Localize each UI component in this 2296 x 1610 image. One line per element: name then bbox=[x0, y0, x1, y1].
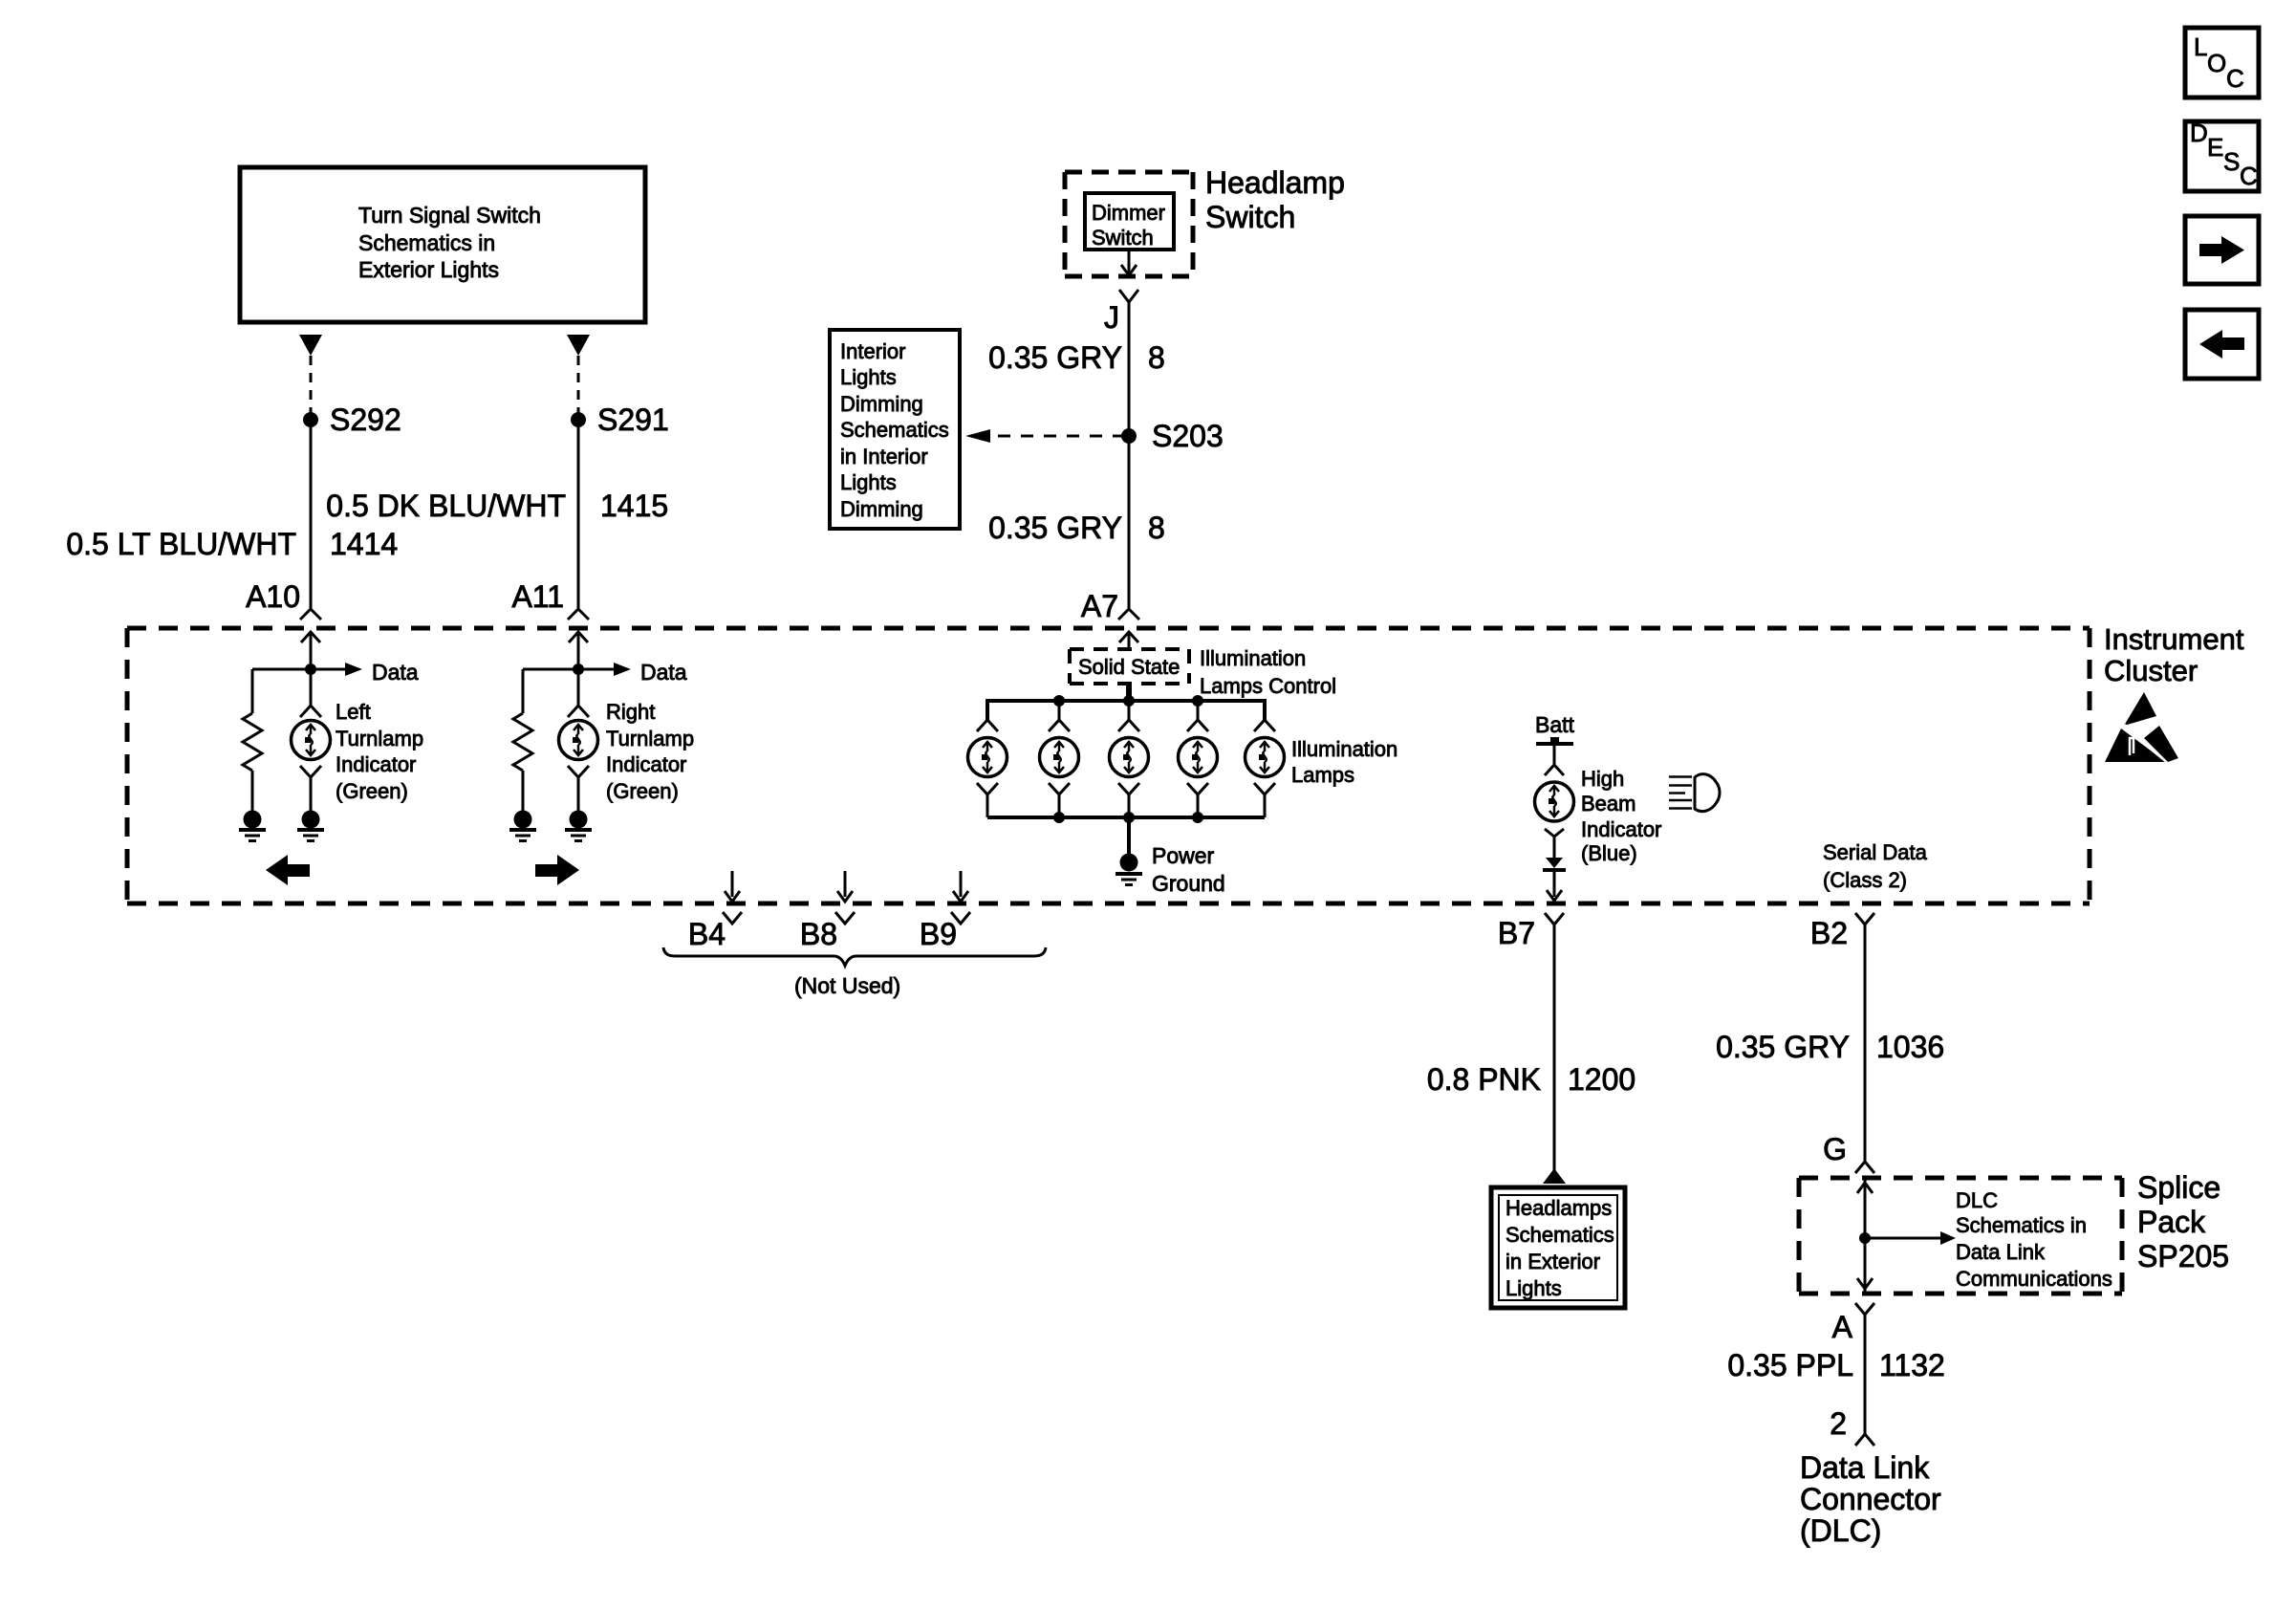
pin B9 arrow bbox=[920, 871, 970, 951]
resistor (left turnlamp) bbox=[243, 669, 262, 811]
svg-text:0.5 DK BLU/WHT: 0.5 DK BLU/WHT bbox=[326, 489, 566, 523]
entry arrow A11 into cluster bbox=[569, 632, 588, 669]
svg-text:Lights: Lights bbox=[840, 365, 897, 389]
svg-text:0.35 PPL: 0.35 PPL bbox=[1727, 1348, 1853, 1382]
off-page arrow into headlamps box bbox=[1543, 1168, 1566, 1184]
label 0.5 DK BLU/WHT 1415 bbox=[326, 489, 668, 523]
svg-text:(Class 2): (Class 2) bbox=[1823, 868, 1907, 892]
svg-text:0.35 GRY: 0.35 GRY bbox=[1716, 1030, 1850, 1064]
DESC icon box bbox=[2185, 119, 2259, 191]
pin B2 bbox=[1810, 913, 1874, 950]
svg-text:Illumination: Illumination bbox=[1291, 737, 1397, 761]
svg-text:8: 8 bbox=[1148, 340, 1165, 375]
dashed arrow to interior lights dimming box bbox=[965, 429, 1122, 443]
svg-text:Data: Data bbox=[640, 660, 687, 685]
ground (right lamp) bbox=[565, 811, 592, 841]
svg-text:Schematics in: Schematics in bbox=[1956, 1213, 2087, 1237]
svg-text:Communications: Communications bbox=[1956, 1267, 2112, 1291]
DLC schematics label bbox=[1956, 1188, 2112, 1291]
svg-text:0.5 LT BLU/WHT: 0.5 LT BLU/WHT bbox=[66, 527, 296, 561]
svg-text:Right: Right bbox=[606, 700, 655, 724]
wire 1200 (B7 down) bbox=[1553, 925, 1556, 1170]
svg-text:Headlamp: Headlamp bbox=[1205, 165, 1345, 200]
svg-text:(DLC): (DLC) bbox=[1800, 1513, 1881, 1548]
svg-text:Indicator: Indicator bbox=[606, 752, 686, 776]
splice S292 bbox=[303, 402, 401, 437]
svg-text:Turn Signal Switch: Turn Signal Switch bbox=[358, 203, 541, 228]
svg-text:C: C bbox=[2240, 162, 2258, 190]
illumination lamp 4 bbox=[1179, 720, 1218, 817]
svg-text:Lamps: Lamps bbox=[1291, 763, 1354, 787]
svg-text:2: 2 bbox=[1830, 1406, 1847, 1441]
svg-text:Serial Data: Serial Data bbox=[1823, 840, 1928, 864]
connector pin A bbox=[1832, 1303, 1874, 1344]
connector pin A10 bbox=[246, 579, 321, 620]
ground (left lamp) bbox=[297, 811, 324, 841]
svg-text:0.35 GRY: 0.35 GRY bbox=[988, 340, 1122, 375]
svg-text:in Exterior: in Exterior bbox=[1505, 1250, 1600, 1273]
reference box Interior Lights Dimming bbox=[830, 330, 960, 529]
LOC icon box bbox=[2185, 28, 2259, 98]
svg-text:0.8 PNK: 0.8 PNK bbox=[1427, 1062, 1541, 1097]
svg-text:E: E bbox=[2207, 133, 2223, 162]
svg-text:Lights: Lights bbox=[840, 470, 897, 494]
node: junction at left data branch bbox=[305, 664, 316, 675]
svg-text:Turnlamp: Turnlamp bbox=[336, 727, 423, 751]
diode bbox=[1543, 858, 1566, 870]
reference box Turn Signal Switch Schematics in Exterior Lights bbox=[240, 167, 645, 322]
illumination lamp 1 bbox=[968, 720, 1007, 817]
node: junction at right data branch bbox=[573, 664, 584, 675]
connector pin A11 bbox=[511, 579, 589, 620]
arrow to B7 bbox=[1547, 872, 1562, 901]
connector pin G bbox=[1823, 1132, 1874, 1173]
svg-text:Data: Data bbox=[372, 660, 419, 685]
svg-text:A10: A10 bbox=[246, 579, 300, 614]
dashed wire from box to S291 bbox=[577, 356, 580, 414]
svg-text:A7: A7 bbox=[1081, 589, 1118, 623]
illumination lamps label bbox=[1291, 737, 1397, 787]
svg-text:Splice: Splice bbox=[2137, 1170, 2220, 1205]
illumination lamp 3 bbox=[1110, 720, 1149, 817]
svg-text:Schematics: Schematics bbox=[840, 418, 949, 442]
svg-text:Left: Left bbox=[336, 700, 371, 724]
Instrument Cluster label bbox=[2104, 622, 2244, 687]
label 0.35 GRY 8 (lower) bbox=[988, 511, 1165, 545]
svg-text:A11: A11 bbox=[511, 579, 564, 614]
svg-text:(Green): (Green) bbox=[606, 779, 679, 803]
wire 1414 (S292 to A10) bbox=[310, 426, 313, 609]
ground (left resistor) bbox=[239, 811, 266, 841]
reference box Headlamps Schematics bbox=[1491, 1187, 1625, 1308]
lamp high beam indicator bbox=[1535, 767, 1662, 865]
resistor (right turnlamp) bbox=[513, 669, 532, 811]
entry arrow A7 into cluster bbox=[1119, 632, 1138, 649]
off-page arrow (right, to S291) bbox=[567, 335, 590, 356]
arrow from dimmer switch bbox=[1121, 250, 1137, 275]
illumination lamps bottom bus bbox=[987, 812, 1265, 823]
serial data label bbox=[1823, 840, 1928, 892]
connector pin J bbox=[1104, 290, 1138, 335]
svg-text:DLC: DLC bbox=[1956, 1188, 1998, 1212]
entry arrow A10 into cluster bbox=[301, 632, 320, 669]
svg-text:Beam: Beam bbox=[1581, 792, 1635, 816]
connector pin A7 bbox=[1081, 589, 1139, 623]
illumination lamp 5 bbox=[1245, 720, 1285, 817]
svg-text:Instrument: Instrument bbox=[2104, 622, 2244, 656]
wire data (right) bbox=[523, 660, 687, 685]
Instrument Cluster dashed border bbox=[127, 628, 2090, 903]
svg-text:O: O bbox=[2207, 49, 2226, 77]
svg-text:S203: S203 bbox=[1152, 419, 1224, 453]
pin 2 of DLC bbox=[1830, 1406, 1874, 1446]
wire data (left) bbox=[252, 660, 419, 685]
svg-text:Lamps Control: Lamps Control bbox=[1200, 674, 1336, 698]
svg-text:S: S bbox=[2223, 147, 2240, 176]
Splice Pack SP205 dashed box bbox=[1799, 1170, 2229, 1294]
svg-text:Switch: Switch bbox=[1092, 226, 1154, 250]
svg-text:Dimming: Dimming bbox=[840, 392, 923, 416]
Dimmer Switch box bbox=[1085, 193, 1174, 250]
svg-text:S291: S291 bbox=[597, 402, 669, 437]
ESD sensitive symbol bbox=[2105, 692, 2178, 764]
data link connector label bbox=[1800, 1450, 1941, 1548]
splice S203 bbox=[1121, 419, 1224, 453]
wire 8 (J to S203) bbox=[1128, 302, 1131, 429]
power ground bbox=[1116, 817, 1225, 896]
pin B7 bbox=[1498, 913, 1564, 950]
svg-text:Data Link: Data Link bbox=[1800, 1450, 1930, 1485]
svg-text:Turnlamp: Turnlamp bbox=[606, 727, 694, 751]
svg-text:1415: 1415 bbox=[600, 489, 668, 523]
svg-text:Batt: Batt bbox=[1535, 712, 1575, 737]
svg-text:Exterior Lights: Exterior Lights bbox=[358, 257, 499, 282]
right arrow icon box bbox=[2185, 216, 2259, 284]
high beam icon bbox=[1669, 774, 1720, 812]
svg-text:L: L bbox=[2194, 33, 2207, 61]
pin B4 arrow bbox=[688, 871, 742, 951]
dashed wire from box to S292 bbox=[310, 356, 313, 414]
svg-text:Schematics: Schematics bbox=[1505, 1223, 1614, 1247]
svg-text:S292: S292 bbox=[330, 402, 401, 437]
svg-text:Lights: Lights bbox=[1505, 1276, 1562, 1300]
left turn arrow icon bbox=[266, 855, 310, 885]
svg-text:Power: Power bbox=[1152, 843, 1215, 868]
svg-text:(Green): (Green) bbox=[336, 779, 408, 803]
svg-text:Connector: Connector bbox=[1800, 1482, 1941, 1516]
wire 8 (S203 to A7) bbox=[1128, 443, 1131, 609]
svg-text:(Blue): (Blue) bbox=[1581, 841, 1637, 865]
brace (not used pins) bbox=[663, 947, 1046, 998]
ground (right resistor) bbox=[509, 811, 536, 841]
svg-text:Interior: Interior bbox=[840, 339, 905, 363]
splice S291 bbox=[571, 402, 669, 437]
svg-text:Dimmer: Dimmer bbox=[1092, 201, 1165, 225]
svg-text:Cluster: Cluster bbox=[2104, 654, 2198, 687]
svg-text:High: High bbox=[1581, 767, 1624, 791]
svg-text:G: G bbox=[1823, 1132, 1847, 1166]
wire 1132 (A to DLC) bbox=[1864, 1315, 1867, 1434]
svg-text:Dimming: Dimming bbox=[840, 497, 923, 521]
svg-text:1036: 1036 bbox=[1876, 1030, 1944, 1064]
label 0.35 GRY 1036 bbox=[1716, 1030, 1944, 1064]
svg-text:Indicator: Indicator bbox=[336, 752, 416, 776]
svg-text:A: A bbox=[1832, 1310, 1853, 1344]
off-page arrow (left, to S292) bbox=[299, 335, 322, 356]
illumination lamps top bus bbox=[987, 695, 1265, 722]
label 0.8 PNK 1200 bbox=[1427, 1062, 1635, 1097]
Solid State control box bbox=[1070, 646, 1336, 698]
left arrow icon box bbox=[2185, 310, 2259, 379]
svg-text:D: D bbox=[2190, 119, 2208, 147]
svg-text:SP205: SP205 bbox=[2137, 1239, 2229, 1273]
svg-text:(Not Used): (Not Used) bbox=[794, 973, 900, 998]
right turn arrow icon bbox=[535, 855, 579, 885]
label 0.5 LT BLU/WHT 1414 bbox=[66, 527, 398, 561]
svg-text:Illumination: Illumination bbox=[1200, 646, 1306, 670]
svg-text:Solid State: Solid State bbox=[1078, 655, 1180, 679]
wire 1036 (B2 to G) bbox=[1864, 925, 1867, 1161]
svg-text:1200: 1200 bbox=[1568, 1062, 1635, 1097]
svg-text:Headlamps: Headlamps bbox=[1505, 1196, 1612, 1220]
svg-text:8: 8 bbox=[1148, 511, 1165, 545]
svg-text:B4: B4 bbox=[688, 917, 726, 951]
label 0.35 GRY 8 (upper) bbox=[988, 340, 1165, 375]
wire solid state to bus bbox=[1126, 684, 1132, 701]
illumination lamp 2 bbox=[1040, 720, 1079, 817]
svg-text:1414: 1414 bbox=[330, 527, 398, 561]
splice pack internal bus bbox=[1857, 1178, 1956, 1294]
pin B8 arrow bbox=[800, 871, 855, 951]
svg-text:Pack: Pack bbox=[2137, 1205, 2206, 1239]
lamp right turnlamp indicator bbox=[559, 669, 695, 811]
svg-text:0.35 GRY: 0.35 GRY bbox=[988, 511, 1122, 545]
svg-text:Ground: Ground bbox=[1152, 871, 1225, 896]
svg-text:C: C bbox=[2226, 64, 2244, 93]
svg-text:B7: B7 bbox=[1498, 916, 1535, 950]
batt feed bbox=[1535, 712, 1575, 775]
svg-text:B9: B9 bbox=[920, 917, 957, 951]
svg-text:B2: B2 bbox=[1810, 916, 1848, 950]
label 0.35 PPL 1132 bbox=[1727, 1348, 1944, 1382]
lamp left turnlamp indicator bbox=[292, 669, 424, 811]
svg-text:B8: B8 bbox=[800, 917, 837, 951]
svg-text:1132: 1132 bbox=[1879, 1348, 1945, 1382]
svg-text:Indicator: Indicator bbox=[1581, 817, 1661, 841]
svg-text:Switch: Switch bbox=[1205, 200, 1295, 234]
svg-text:J: J bbox=[1104, 300, 1119, 335]
svg-text:Data Link: Data Link bbox=[1956, 1240, 2046, 1264]
svg-text:Schematics in: Schematics in bbox=[358, 230, 495, 255]
Headlamp Switch dashed box bbox=[1065, 165, 1345, 276]
svg-text:in Interior: in Interior bbox=[840, 445, 928, 468]
wire 1415 (S291 to A11) bbox=[577, 426, 580, 609]
